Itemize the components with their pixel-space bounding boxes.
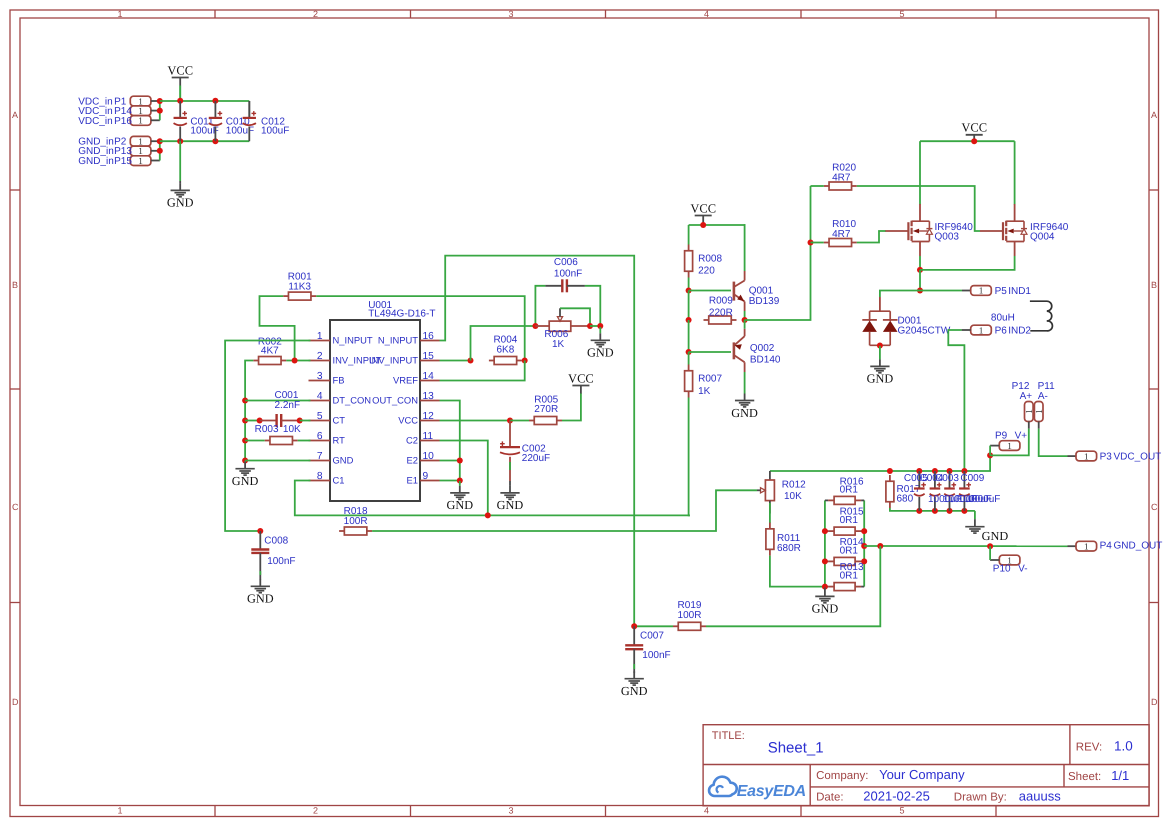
pin 15 INV_INPUT bbox=[369, 351, 439, 365]
pin 7 GND bbox=[309, 451, 354, 465]
svg-text:P4: P4 bbox=[1100, 541, 1113, 552]
ground (R006/C006) bbox=[587, 327, 614, 360]
title block bbox=[703, 725, 1149, 806]
svg-text:B: B bbox=[1151, 280, 1157, 290]
potentiometer R006 1K bbox=[535, 308, 590, 350]
svg-text:VCC: VCC bbox=[398, 414, 418, 425]
pin 4 DT_CON bbox=[309, 391, 372, 405]
node rail R017 bbox=[887, 468, 893, 474]
node C001 right bbox=[297, 418, 303, 424]
ground (IC left bus) bbox=[232, 461, 259, 488]
svg-text:2: 2 bbox=[317, 351, 323, 362]
node C007 / R019 / feedback bbox=[631, 623, 637, 629]
wire R001 right to R004/VREF node bbox=[316, 296, 525, 360]
svg-text:9: 9 bbox=[423, 471, 429, 482]
resistor R015 0R1 bbox=[825, 507, 864, 536]
node R006 left bbox=[532, 323, 538, 329]
svg-text:100R: 100R bbox=[678, 610, 702, 621]
svg-text:270R: 270R bbox=[534, 404, 558, 415]
svg-text:Q001: Q001 bbox=[749, 285, 774, 296]
svg-text:220R: 220R bbox=[709, 308, 733, 319]
svg-text:4: 4 bbox=[704, 806, 709, 816]
node bottom rail C003 bbox=[947, 508, 953, 514]
resistor R009 220R bbox=[704, 296, 737, 325]
svg-text:P9: P9 bbox=[995, 431, 1008, 442]
node C008 / R018 junction bbox=[257, 528, 263, 534]
svg-text:1: 1 bbox=[1024, 409, 1034, 414]
node R014 right bbox=[861, 558, 867, 564]
svg-text:10K: 10K bbox=[784, 491, 802, 502]
node pin15 / R004 / R006 net bbox=[468, 358, 474, 364]
svg-text:B: B bbox=[12, 280, 18, 290]
svg-text:100nF: 100nF bbox=[267, 556, 295, 567]
svg-text:IND2: IND2 bbox=[1008, 326, 1031, 337]
wire pin10 E2 bbox=[440, 460, 460, 462]
svg-text:220uF: 220uF bbox=[522, 453, 550, 464]
capacitor C005 1000uF bbox=[914, 471, 926, 511]
wire P16 pin bbox=[151, 119, 160, 121]
node R006 wiper junction bbox=[587, 323, 593, 329]
wire R010 left bbox=[811, 242, 824, 244]
transistor Q002 BD140 (PNP) bbox=[734, 329, 781, 372]
svg-text:2.2nF: 2.2nF bbox=[275, 400, 301, 411]
wire R002 right to pin 2 bbox=[286, 360, 310, 362]
wire output VCC rail bbox=[920, 140, 1015, 142]
wire GND_in bus bbox=[159, 141, 161, 160]
svg-text:BD139: BD139 bbox=[749, 296, 780, 307]
svg-text:1K: 1K bbox=[552, 339, 565, 350]
node rail C003 bbox=[947, 468, 953, 474]
capacitor C009 1000uF bbox=[959, 471, 971, 511]
wire P14 pin bbox=[151, 110, 160, 112]
svg-text:GND: GND bbox=[731, 406, 758, 420]
svg-text:C1: C1 bbox=[333, 474, 345, 485]
svg-text:11K3: 11K3 bbox=[288, 282, 311, 293]
svg-text:G2045CTW: G2045CTW bbox=[898, 326, 951, 337]
svg-text:P3: P3 bbox=[1100, 451, 1113, 462]
wire driver VCC rail bbox=[689, 224, 746, 226]
resistor R005 270R bbox=[529, 395, 562, 425]
svg-text:13: 13 bbox=[423, 391, 435, 402]
node pin2 / R001 / R002 bbox=[292, 358, 298, 364]
wire R012 bottom to R011 bbox=[769, 503, 771, 523]
wire R003 left bbox=[245, 440, 265, 442]
node C001 left bbox=[257, 418, 263, 424]
node rail C005 bbox=[916, 468, 922, 474]
resistor R017 680 bbox=[886, 475, 921, 508]
svg-text:C: C bbox=[1151, 502, 1158, 512]
connector P6 IND2 bbox=[971, 325, 1032, 336]
svg-text:C009: C009 bbox=[960, 473, 984, 484]
svg-text:5: 5 bbox=[317, 411, 323, 422]
svg-text:BD140: BD140 bbox=[750, 355, 781, 366]
svg-text:4R7: 4R7 bbox=[832, 229, 851, 240]
ground (C007) bbox=[621, 672, 648, 698]
transistor Q001 BD139 (NPN) bbox=[734, 271, 780, 311]
svg-text:OUT_CON: OUT_CON bbox=[372, 394, 418, 405]
node GND pin7 tap bbox=[242, 458, 248, 464]
ground (C002) bbox=[497, 481, 524, 512]
svg-text:Your Company: Your Company bbox=[879, 767, 965, 782]
wire pin7 GND bbox=[245, 460, 310, 462]
op-amp U001 TL494G-D16-T body bbox=[330, 300, 435, 501]
pin 10 E2 bbox=[407, 451, 440, 465]
svg-text:1: 1 bbox=[118, 806, 123, 816]
svg-text:V+: V+ bbox=[1015, 431, 1028, 442]
node GND_OUT rail tap bbox=[861, 543, 867, 549]
svg-text:P10: P10 bbox=[993, 563, 1011, 574]
pin 6 RT bbox=[309, 431, 346, 445]
connector P5 IND1 bbox=[971, 286, 1032, 297]
resistor R014 0R1 bbox=[825, 537, 864, 566]
ground (input) bbox=[167, 181, 194, 210]
svg-text:FB: FB bbox=[333, 374, 345, 385]
svg-text:Date:: Date: bbox=[816, 792, 844, 804]
capacitor C004 1000uF bbox=[930, 471, 942, 511]
pin 5 CT bbox=[309, 411, 346, 425]
svg-text:VCC: VCC bbox=[568, 371, 594, 385]
svg-text:1: 1 bbox=[138, 106, 143, 116]
resistor R011 680R bbox=[766, 523, 801, 556]
svg-text:4R7: 4R7 bbox=[832, 173, 851, 184]
wire P6 to output cap bank bbox=[962, 329, 971, 331]
EasyEDA logo bbox=[709, 777, 806, 801]
node VDC rail at C010 bbox=[212, 98, 218, 104]
wire VCC rail left down bbox=[688, 225, 690, 245]
node GND rail at C010 bbox=[212, 138, 218, 144]
connector P10 V- bbox=[993, 555, 1028, 574]
svg-text:A+: A+ bbox=[1020, 391, 1033, 402]
svg-text:680: 680 bbox=[897, 493, 914, 504]
ground (Q002) bbox=[731, 393, 758, 420]
svg-text:220: 220 bbox=[698, 266, 715, 277]
node P1 junction bbox=[157, 98, 163, 104]
wire VCC to input rail bbox=[179, 86, 181, 101]
node R008 / Q001 base bbox=[686, 288, 692, 294]
svg-text:VDC_OUT: VDC_OUT bbox=[1114, 451, 1162, 462]
node R009 right / emitters bbox=[742, 317, 748, 323]
wire R016 leads bbox=[825, 499, 828, 501]
wire pin15 node up to R006 left bbox=[471, 326, 536, 361]
resistor R010 4R7 bbox=[824, 219, 857, 247]
node VCC output bbox=[971, 138, 977, 144]
resistor R002 4K7 bbox=[253, 337, 286, 365]
wire base bus down 2 bbox=[688, 320, 690, 352]
title text bbox=[712, 730, 824, 757]
wire Q004 drain bbox=[1014, 141, 1016, 204]
capacitor C012 100uF bbox=[243, 101, 290, 141]
svg-text:P16: P16 bbox=[114, 116, 132, 127]
svg-text:V-: V- bbox=[1018, 563, 1027, 574]
svg-text:5: 5 bbox=[900, 9, 905, 19]
svg-text:0R1: 0R1 bbox=[840, 515, 859, 526]
svg-text:A-: A- bbox=[1038, 391, 1048, 402]
svg-text:GND: GND bbox=[446, 498, 473, 512]
wire P1 pin bbox=[151, 100, 160, 102]
wire pin8 C1 to common net bbox=[295, 481, 690, 516]
svg-text:Drawn By:: Drawn By: bbox=[954, 792, 1007, 804]
svg-text:VCC: VCC bbox=[690, 201, 716, 215]
capacitor C003 1000uF bbox=[944, 471, 956, 511]
svg-text:16: 16 bbox=[423, 331, 435, 342]
node bottom rail C009 bbox=[961, 508, 967, 514]
svg-text:GND: GND bbox=[333, 454, 354, 465]
svg-text:1: 1 bbox=[118, 9, 123, 19]
svg-text:2: 2 bbox=[313, 9, 318, 19]
svg-text:P15: P15 bbox=[114, 156, 132, 167]
node R013 left / R011 bbox=[822, 584, 828, 590]
wire shunt right rail bbox=[863, 500, 865, 586]
resistor R013 0R1 bbox=[825, 562, 864, 591]
svg-text:C007: C007 bbox=[640, 631, 664, 642]
wire R007 bottom to C1/C2 net bbox=[689, 398, 690, 516]
wire P10 pin bbox=[990, 559, 999, 561]
wire P13 pin bbox=[151, 150, 160, 152]
node Q003/Q004 source join bbox=[917, 267, 923, 273]
wire CT row left bbox=[245, 420, 260, 422]
svg-text:P6: P6 bbox=[995, 326, 1008, 337]
power symbol VCC (input) bbox=[167, 63, 193, 100]
svg-text:R003: R003 bbox=[255, 424, 279, 435]
node IND1 junction bbox=[917, 288, 923, 294]
svg-text:Q004: Q004 bbox=[1030, 231, 1055, 242]
svg-text:RT: RT bbox=[333, 434, 346, 445]
svg-text:N_INPUT: N_INPUT bbox=[378, 334, 418, 345]
svg-text:D: D bbox=[12, 697, 19, 707]
pin 14 VREF bbox=[393, 371, 440, 385]
wire VREF pin14 bbox=[440, 361, 525, 381]
wire GND_OUT rail bbox=[864, 545, 1067, 547]
wire R005 right to VCC bbox=[562, 394, 581, 421]
wire Q003 source down bbox=[919, 256, 921, 270]
wire Q001 emitter down bbox=[744, 311, 746, 320]
resistor R008 220 bbox=[685, 245, 723, 278]
power symbol VCC (R005) bbox=[568, 371, 594, 394]
node P14 junction bbox=[157, 108, 163, 114]
node RT tap bbox=[242, 438, 248, 444]
node R009 left bbox=[686, 317, 692, 323]
wire P15 pin bbox=[151, 160, 160, 162]
connector P15 GND_in bbox=[78, 156, 151, 167]
wire Q004 source down and across bbox=[920, 256, 1015, 270]
svg-text:100R: 100R bbox=[344, 516, 368, 527]
svg-text:Company:: Company: bbox=[816, 770, 868, 782]
capacitor C002 220uF bbox=[500, 421, 550, 482]
svg-text:14: 14 bbox=[423, 371, 435, 382]
wire R003 right to pin 6 bbox=[298, 440, 311, 442]
svg-text:EasyEDA: EasyEDA bbox=[737, 783, 806, 800]
pin 11 C2 bbox=[406, 431, 439, 445]
node D001 cathode bbox=[877, 343, 883, 349]
wire output rail top bbox=[770, 455, 990, 471]
wire pin1 N_INPUT to R018 net bbox=[225, 341, 310, 532]
svg-text:IND1: IND1 bbox=[1008, 286, 1031, 297]
svg-text:100uF: 100uF bbox=[261, 126, 289, 137]
svg-text:C2: C2 bbox=[406, 434, 418, 445]
svg-text:GND: GND bbox=[621, 684, 648, 698]
wire R017 bottom rail bbox=[890, 508, 975, 511]
svg-text:12: 12 bbox=[423, 411, 435, 422]
resistor R016 0R1 bbox=[828, 476, 864, 504]
capacitor C011 100uF bbox=[174, 101, 219, 141]
svg-text:GND: GND bbox=[812, 602, 839, 616]
svg-text:aauuss: aauuss bbox=[1019, 789, 1061, 804]
wire pin13 OUT_CON down to emitter bus bbox=[440, 401, 460, 481]
svg-text:VDC_in: VDC_in bbox=[78, 116, 112, 127]
wire IND1 row to D001 bbox=[880, 291, 920, 298]
svg-text:R007: R007 bbox=[698, 374, 722, 385]
resistor R019 100R bbox=[673, 600, 706, 630]
svg-text:N_INPUT: N_INPUT bbox=[333, 334, 373, 345]
svg-text:GND: GND bbox=[247, 592, 274, 606]
svg-text:CT: CT bbox=[333, 414, 346, 425]
wire pin15 INV_INPUT bbox=[440, 360, 471, 362]
pin 12 VCC bbox=[398, 411, 439, 425]
svg-text:0R1: 0R1 bbox=[840, 484, 859, 495]
ground (D001) bbox=[867, 346, 894, 386]
wire R020 right to Q004 gate bbox=[857, 186, 980, 231]
node rail C009 bbox=[961, 468, 967, 474]
wire shunt left rail bbox=[824, 500, 826, 586]
pin 16 N_INPUT bbox=[378, 331, 440, 345]
svg-text:D: D bbox=[1151, 697, 1158, 707]
wire pin4 DT_CON bbox=[245, 400, 310, 402]
svg-text:80uH: 80uH bbox=[991, 313, 1015, 324]
svg-text:A: A bbox=[1151, 110, 1157, 120]
wire R011 bottom to shunt bank bbox=[770, 556, 825, 587]
svg-text:1: 1 bbox=[1084, 451, 1089, 461]
svg-text:1: 1 bbox=[979, 286, 984, 296]
svg-text:10: 10 bbox=[423, 451, 435, 462]
connector P3 VDC_OUT bbox=[1076, 451, 1161, 462]
svg-text:1K: 1K bbox=[698, 386, 711, 397]
wire CT row right to pin 5 bbox=[300, 420, 311, 422]
svg-text:2021-02-25: 2021-02-25 bbox=[863, 789, 930, 804]
wire R002 left down ground bus bbox=[245, 361, 253, 462]
svg-text:R012: R012 bbox=[782, 480, 806, 491]
wire Q003 drain bbox=[919, 141, 921, 204]
svg-text:GND: GND bbox=[982, 529, 1009, 543]
svg-text:1: 1 bbox=[138, 96, 143, 106]
connector P1 VDC_in bbox=[78, 96, 151, 107]
svg-text:VCC: VCC bbox=[167, 63, 193, 77]
node CT tap bbox=[242, 418, 248, 424]
ground (C008) bbox=[247, 579, 274, 605]
node GND rail at C011 bbox=[177, 138, 183, 144]
wire Q002 collector to ground bbox=[744, 372, 746, 393]
node P9/A+ junction bbox=[987, 452, 993, 458]
svg-text:GND_in: GND_in bbox=[78, 156, 114, 167]
capacitor C007 100nF bbox=[625, 626, 670, 672]
svg-text:3: 3 bbox=[317, 371, 323, 382]
svg-text:GND: GND bbox=[867, 372, 894, 386]
wire Q001 collector to VCC rail bbox=[744, 225, 747, 271]
node P10 junction bbox=[987, 543, 993, 549]
svg-text:100nF: 100nF bbox=[554, 268, 582, 279]
svg-text:INV_INPUT: INV_INPUT bbox=[369, 354, 418, 365]
wire P2 pin bbox=[151, 140, 160, 142]
power symbol VCC (driver) bbox=[690, 201, 716, 225]
svg-text:VREF: VREF bbox=[393, 374, 418, 385]
svg-text:Q003: Q003 bbox=[935, 231, 960, 242]
wire pin12 VCC row bbox=[440, 420, 511, 422]
svg-text:TITLE:: TITLE: bbox=[712, 730, 745, 742]
inductor 80uH bbox=[991, 301, 1053, 331]
svg-text:0R1: 0R1 bbox=[840, 545, 859, 556]
connector P9 V+ bbox=[995, 431, 1027, 451]
wire to R007 bbox=[688, 352, 690, 365]
connector P13 GND_in bbox=[78, 146, 151, 157]
node E1 junction bbox=[457, 478, 463, 484]
connector P11 A- bbox=[1034, 381, 1055, 422]
node rail C004 bbox=[932, 468, 938, 474]
svg-text:1: 1 bbox=[138, 116, 143, 126]
node VCC row / C002 bbox=[507, 418, 513, 424]
svg-text:E1: E1 bbox=[407, 474, 418, 485]
svg-text:3: 3 bbox=[509, 9, 514, 19]
svg-text:GND: GND bbox=[232, 474, 259, 488]
pin 2 INV_INPUT bbox=[309, 351, 382, 365]
resistor R007 1K bbox=[685, 365, 723, 398]
resistor R018 100R bbox=[339, 506, 372, 535]
capacitor C008 100nF bbox=[251, 531, 295, 580]
svg-text:1: 1 bbox=[1084, 541, 1089, 551]
node R004 right / VREF / R001 bbox=[522, 358, 528, 364]
svg-text:11: 11 bbox=[423, 431, 434, 442]
wire VDC rail bbox=[160, 100, 250, 102]
power symbol VCC (output) bbox=[961, 121, 987, 143]
connector P12 A+ bbox=[1012, 381, 1034, 422]
wire bottom rail to ground bbox=[974, 511, 976, 519]
node P13 junction bbox=[157, 148, 163, 154]
svg-text:1: 1 bbox=[138, 136, 143, 146]
svg-text:C008: C008 bbox=[264, 536, 288, 547]
svg-text:0R1: 0R1 bbox=[840, 571, 859, 582]
node R015 right bbox=[861, 528, 867, 534]
svg-text:1000uF: 1000uF bbox=[967, 494, 1001, 505]
date row bbox=[816, 789, 1061, 804]
svg-text:C006: C006 bbox=[554, 257, 578, 268]
capacitor C006 100nF bbox=[535, 257, 600, 326]
ground (E1/E2) bbox=[446, 481, 473, 512]
pin 1 N_INPUT bbox=[309, 331, 373, 345]
svg-text:GND: GND bbox=[497, 498, 524, 512]
svg-text:Sheet_1: Sheet_1 bbox=[768, 740, 824, 757]
wire emitters junction down to Q002 bbox=[744, 320, 746, 329]
svg-text:GND: GND bbox=[167, 196, 194, 210]
svg-text:REV:: REV: bbox=[1076, 742, 1102, 754]
company row bbox=[816, 767, 965, 782]
svg-text:P5: P5 bbox=[995, 286, 1008, 297]
svg-text:A: A bbox=[12, 110, 18, 120]
wire R005 left bbox=[510, 420, 529, 422]
node bottom rail C005 bbox=[916, 508, 922, 514]
svg-text:Q002: Q002 bbox=[750, 343, 775, 354]
svg-text:GND: GND bbox=[587, 346, 614, 360]
resistor R001 11K3 bbox=[283, 272, 316, 301]
wire base bus down bbox=[688, 291, 690, 321]
wire R020 left bbox=[811, 185, 824, 187]
wire IND1 row to P5 bbox=[920, 290, 962, 292]
wire P9 pin bbox=[990, 445, 999, 447]
node E2 junction bbox=[457, 458, 463, 464]
svg-text:R008: R008 bbox=[698, 254, 722, 265]
potentiometer R012 10K bbox=[757, 471, 806, 514]
wire GND rail to ground bbox=[179, 141, 181, 181]
pin 3 FB bbox=[309, 371, 345, 385]
svg-text:C: C bbox=[12, 502, 19, 512]
svg-text:1: 1 bbox=[138, 156, 143, 166]
